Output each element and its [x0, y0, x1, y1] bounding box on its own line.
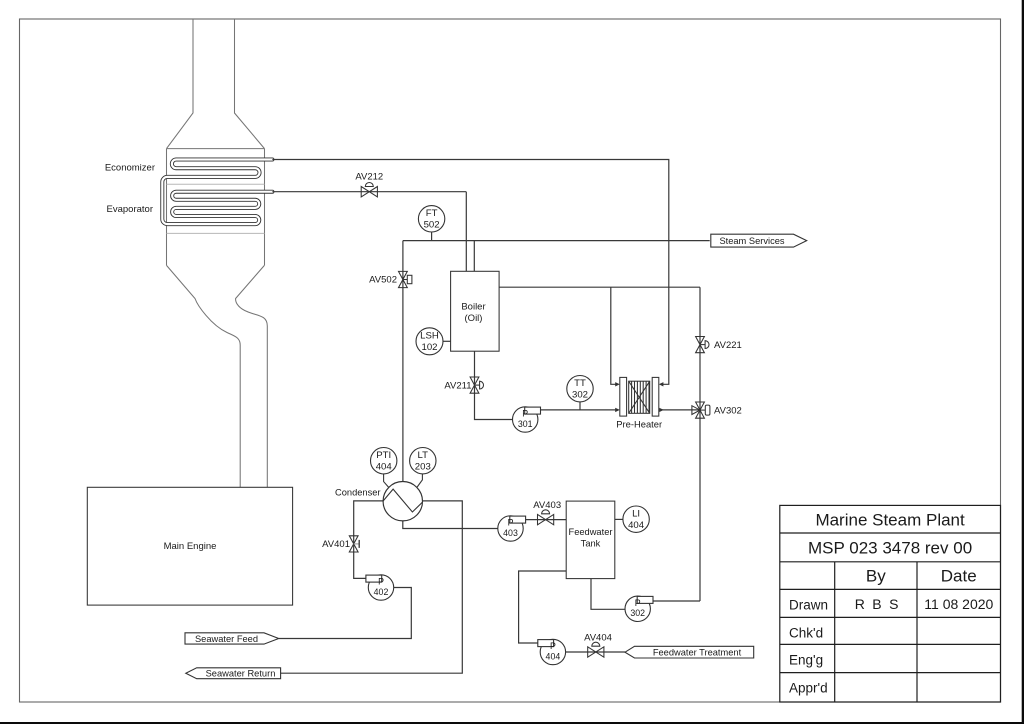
- svg-text:203: 203: [415, 462, 431, 473]
- svg-text:404: 404: [628, 520, 645, 531]
- svg-text:Eng'g: Eng'g: [789, 652, 823, 667]
- svg-text:AV401: AV401: [322, 539, 350, 550]
- svg-text:Tank: Tank: [581, 538, 601, 548]
- svg-text:PTI: PTI: [376, 450, 391, 461]
- svg-text:P: P: [522, 409, 528, 419]
- svg-text:P: P: [635, 598, 641, 608]
- svg-text:Appr'd: Appr'd: [789, 681, 828, 696]
- svg-text:Seawater Feed: Seawater Feed: [195, 634, 258, 644]
- svg-text:P: P: [508, 518, 514, 528]
- svg-text:Evaporator: Evaporator: [107, 204, 153, 215]
- svg-text:P: P: [550, 641, 556, 651]
- svg-text:Pre-Heater: Pre-Heater: [616, 419, 662, 430]
- svg-text:Chk'd: Chk'd: [789, 625, 823, 640]
- svg-text:TT: TT: [574, 378, 586, 389]
- svg-text:Boiler: Boiler: [461, 302, 485, 313]
- svg-text:Seawater Return: Seawater Return: [206, 669, 276, 679]
- svg-text:LSH: LSH: [420, 331, 439, 342]
- svg-text:AV403: AV403: [533, 500, 561, 511]
- svg-text:403: 403: [503, 528, 518, 538]
- svg-text:Feedwater Treatment: Feedwater Treatment: [653, 648, 742, 658]
- svg-text:Marine Steam Plant: Marine Steam Plant: [815, 511, 965, 530]
- svg-text:301: 301: [518, 419, 533, 429]
- svg-text:R B S: R B S: [855, 596, 901, 612]
- svg-text:AV221: AV221: [714, 340, 742, 351]
- svg-text:102: 102: [421, 342, 437, 353]
- svg-text:502: 502: [424, 220, 440, 231]
- svg-text:AV211: AV211: [444, 380, 471, 391]
- svg-text:LI: LI: [632, 509, 640, 520]
- svg-text:Feedwater: Feedwater: [569, 527, 613, 537]
- svg-text:302: 302: [630, 608, 645, 618]
- svg-text:Main Engine: Main Engine: [164, 541, 217, 552]
- svg-text:Drawn: Drawn: [789, 597, 828, 612]
- svg-text:11 08 2020: 11 08 2020: [924, 596, 993, 612]
- svg-text:302: 302: [572, 390, 588, 401]
- svg-text:(Oil): (Oil): [465, 313, 483, 324]
- svg-text:Economizer: Economizer: [105, 163, 155, 174]
- svg-text:FT: FT: [426, 208, 438, 219]
- svg-text:Date: Date: [941, 567, 977, 586]
- svg-text:Steam Services: Steam Services: [719, 236, 784, 246]
- svg-text:AV302: AV302: [714, 405, 742, 416]
- svg-text:Condenser: Condenser: [335, 488, 380, 498]
- svg-text:By: By: [866, 567, 886, 586]
- svg-text:AV502: AV502: [369, 275, 397, 286]
- svg-text:404: 404: [376, 462, 393, 473]
- svg-text:402: 402: [374, 587, 389, 597]
- svg-text:LT: LT: [418, 450, 429, 461]
- svg-text:MSP 023 3478 rev 00: MSP 023 3478 rev 00: [808, 539, 972, 558]
- svg-text:AV404: AV404: [584, 633, 612, 644]
- svg-text:AV212: AV212: [355, 172, 383, 183]
- svg-text:P: P: [378, 577, 384, 587]
- svg-text:404: 404: [546, 651, 561, 661]
